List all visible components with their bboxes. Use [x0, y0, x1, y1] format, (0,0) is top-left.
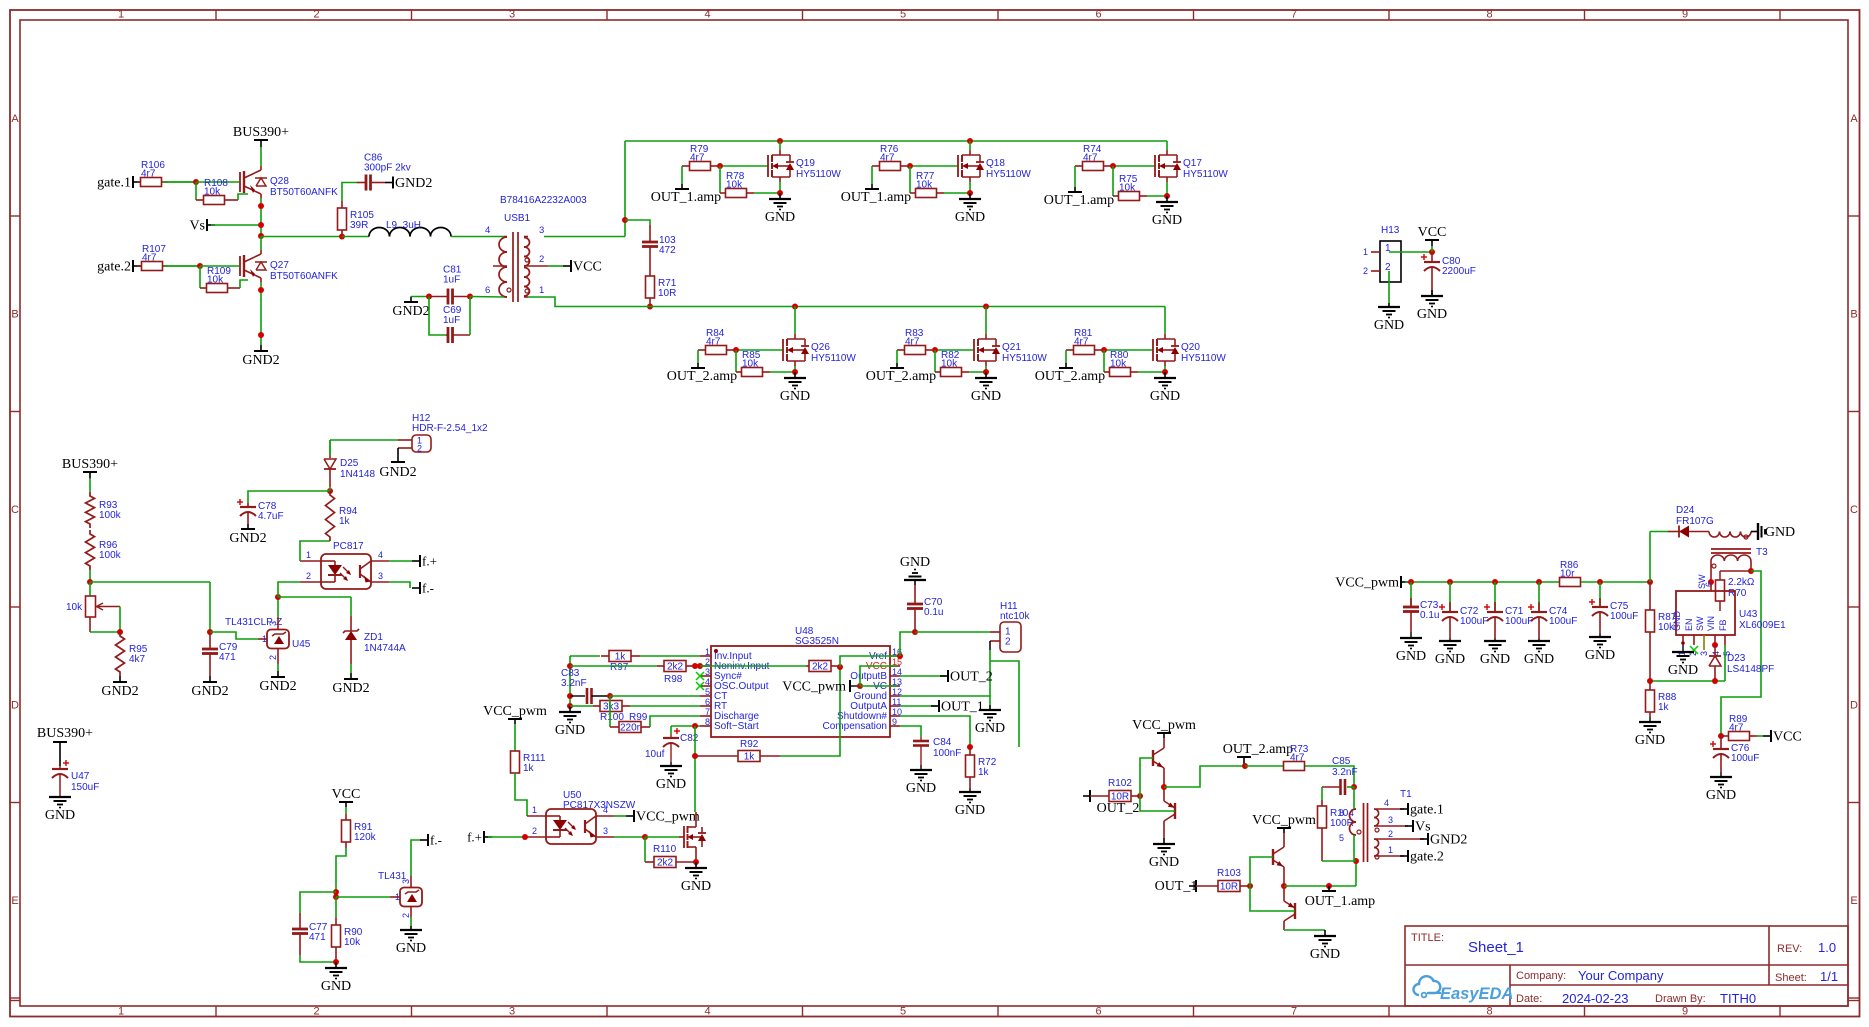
- wire base lower: [1140, 796, 1175, 811]
- resistor R74 4r7: [1075, 144, 1111, 171]
- svg-text:GND2: GND2: [379, 465, 416, 480]
- svg-text:4r7: 4r7: [1290, 753, 1305, 764]
- title block: [1405, 926, 1848, 1006]
- svg-text:GND: GND: [1149, 855, 1179, 870]
- transistor Q19 HY5110W (N-MOSFET): [768, 150, 841, 182]
- svg-text:D24: D24: [1676, 505, 1695, 516]
- svg-text:gate.1: gate.1: [97, 176, 131, 191]
- svg-text:BUS390+: BUS390+: [62, 457, 118, 472]
- ground GND below R88: [1635, 717, 1665, 748]
- resistor R110 2k2: [645, 844, 696, 869]
- junction: [258, 287, 264, 293]
- svg-text:FB: FB: [1718, 619, 1728, 631]
- svg-text:Q27: Q27: [270, 260, 289, 271]
- svg-text:ZD1: ZD1: [364, 632, 383, 643]
- svg-text:5: 5: [1339, 833, 1344, 843]
- svg-text:LS4148PF: LS4148PF: [1727, 664, 1774, 675]
- wire: [570, 705, 593, 707]
- junction gate node: [907, 163, 913, 169]
- net port OUT_2.amp: [667, 350, 737, 384]
- resistor R93 100k: [86, 492, 122, 528]
- svg-text:GND: GND: [971, 389, 1001, 404]
- svg-text:4r7: 4r7: [1074, 337, 1089, 348]
- wire VCC_pwm rail: [1405, 581, 1560, 583]
- svg-text:100uF: 100uF: [1549, 616, 1577, 627]
- svg-text:T3: T3: [1756, 547, 1768, 558]
- junction T1 pin5 node: [1353, 858, 1359, 864]
- resistor R92 1k: [695, 739, 780, 763]
- svg-text:GND2: GND2: [191, 684, 228, 699]
- wire: [700, 665, 806, 667]
- wire to C77: [300, 892, 336, 913]
- wire drain: [779, 141, 781, 150]
- ground GND driver2: [1310, 930, 1340, 962]
- resistor R81 4r7: [1066, 328, 1102, 355]
- wire gate to R85: [735, 350, 737, 372]
- svg-text:7: 7: [1291, 1006, 1297, 1018]
- wire: [89, 478, 91, 492]
- wire C79 node to TL431 U45: [210, 632, 258, 639]
- transistor Q17 HY5110W (N-MOSFET): [1155, 150, 1228, 182]
- wire VC and VCC: [860, 666, 897, 686]
- resistor R83 4r7: [897, 328, 933, 355]
- svg-text:Sheet_1: Sheet_1: [1468, 939, 1524, 956]
- svg-text:471: 471: [309, 932, 326, 943]
- net port VCC_pwm (rail): [1335, 576, 1409, 591]
- wire gate: [908, 165, 958, 167]
- svg-text:U45: U45: [292, 639, 311, 650]
- svg-text:GND: GND: [1706, 788, 1736, 803]
- svg-text:GND: GND: [1635, 733, 1665, 748]
- wire: [168, 181, 196, 183]
- power flag VCC_pwm (driver 1): [1132, 718, 1196, 738]
- EasyEDA logo: [1414, 976, 1514, 1003]
- svg-text:HY5110W: HY5110W: [1181, 353, 1226, 364]
- svg-text:1k: 1k: [339, 516, 351, 527]
- wire: [1581, 581, 1650, 583]
- ground GND (U48 Ground pin): [975, 705, 1005, 736]
- no-connect OSC.Output: [696, 682, 704, 690]
- wire vertical to top bus: [624, 141, 626, 237]
- wire node to C78: [248, 491, 330, 503]
- resistor R100 3k3: [593, 701, 630, 724]
- svg-text:2: 2: [1363, 266, 1368, 276]
- svg-text:PC817: PC817: [333, 541, 364, 552]
- svg-text:B78416A2232A003: B78416A2232A003: [500, 195, 587, 206]
- svg-text:8: 8: [1486, 9, 1492, 21]
- svg-text:OUT_2.amp: OUT_2.amp: [1223, 742, 1293, 757]
- svg-text:VCC: VCC: [573, 260, 602, 275]
- svg-text:OUT_2: OUT_2: [950, 670, 993, 685]
- net port VCC_pwm (U50 pin4): [614, 810, 700, 825]
- wire U50 pin3 to gate: [614, 836, 645, 838]
- wire gate: [734, 349, 783, 351]
- junction: [567, 663, 573, 669]
- wire Compensation to C84: [900, 726, 921, 737]
- svg-text:VCC: VCC: [1773, 730, 1802, 745]
- power flag OUT_2.amp: [1223, 742, 1293, 766]
- svg-text:R97: R97: [610, 662, 629, 673]
- resistor R77 10k: [910, 171, 944, 198]
- resistor R73 4r7: [1283, 744, 1309, 771]
- net port OUT_1.amp: [841, 166, 911, 205]
- junction OUT_1.amp node: [1326, 883, 1332, 889]
- wire H13 pin1 to VCC: [1389, 251, 1432, 253]
- svg-text:3: 3: [378, 571, 383, 581]
- svg-text:TITH0: TITH0: [1720, 991, 1756, 1006]
- svg-text:4r7: 4r7: [142, 253, 157, 264]
- resistor R71 10R: [646, 259, 677, 307]
- wire to source: [1147, 195, 1167, 197]
- svg-text:4.7uF: 4.7uF: [258, 511, 284, 522]
- capacitor C72 100uF: [1439, 582, 1488, 638]
- ground GND2 below R95: [101, 676, 138, 699]
- net port OUT_2.amp: [866, 350, 936, 384]
- svg-text:1: 1: [262, 634, 267, 644]
- svg-text:8: 8: [1339, 808, 1344, 818]
- wire discharge R99 branch: [609, 696, 611, 727]
- zener diode ZD1 1N4744A: [343, 616, 406, 664]
- junction: [837, 664, 843, 670]
- wire PNP1 emitter to GND: [1163, 825, 1165, 838]
- resistor R79 4r7: [682, 144, 718, 171]
- svg-text:GND: GND: [955, 210, 985, 225]
- svg-text:GND: GND: [1417, 307, 1447, 322]
- junction C72: [1447, 579, 1453, 585]
- ground GND at Q21: [971, 372, 1001, 404]
- svg-text:Q17: Q17: [1183, 158, 1202, 169]
- junction GND node: [333, 959, 339, 965]
- junction C77 tap: [333, 889, 339, 895]
- wire branch to R72 node: [990, 661, 1019, 747]
- junction R105 bottom node: [339, 234, 345, 240]
- wire: [350, 597, 352, 616]
- wire: [209, 582, 211, 632]
- junction gate node: [733, 347, 739, 353]
- svg-text:EasyEDA: EasyEDA: [1440, 985, 1513, 1003]
- transformer T1: [1339, 789, 1424, 862]
- svg-text:4: 4: [1384, 798, 1389, 808]
- svg-text:9: 9: [1682, 9, 1688, 21]
- wire Ground pin to GND: [900, 696, 990, 705]
- power flag OUT_1.amp (below wire): [1305, 886, 1375, 909]
- svg-text:OUT_1.amp: OUT_1.amp: [841, 190, 911, 205]
- wire: [137, 265, 141, 267]
- ground GND below H13: [1374, 303, 1404, 333]
- wire R105 to C86: [342, 183, 357, 202]
- junction base node 1: [1137, 793, 1143, 799]
- resistor R109 10k: [200, 266, 240, 293]
- wire up to T1 pin5 node: [1355, 861, 1357, 886]
- svg-text:Compensation: Compensation: [823, 721, 887, 732]
- wire CT: [610, 695, 700, 697]
- wire drain: [794, 307, 796, 335]
- svg-text:8: 8: [1486, 1006, 1492, 1018]
- ground GND2 below C79: [191, 676, 228, 699]
- net port Vs: [189, 219, 215, 234]
- ground GND below C72: [1435, 638, 1465, 667]
- wire: [238, 194, 248, 200]
- svg-text:10k: 10k: [742, 359, 759, 370]
- junction TL431 tap: [333, 894, 339, 900]
- svg-text:6: 6: [1095, 1006, 1101, 1018]
- svg-text:10k: 10k: [916, 180, 933, 191]
- junction: [1647, 678, 1653, 684]
- svg-text:3: 3: [509, 1006, 515, 1018]
- transistor Q26 HY5110W (N-MOSFET): [783, 334, 856, 366]
- svg-text:0.1u: 0.1u: [1420, 610, 1439, 621]
- capacitor C78 4.7uF: [237, 499, 284, 524]
- svg-text:HY5110W: HY5110W: [796, 169, 841, 180]
- junction source node: [777, 190, 783, 196]
- wire divider to C79 column: [90, 581, 210, 583]
- wire gate: [933, 349, 974, 351]
- net port OUT_2 input: [1083, 790, 1139, 816]
- svg-text:VCC_pwm: VCC_pwm: [1252, 813, 1316, 828]
- svg-text:1k: 1k: [978, 767, 990, 778]
- svg-text:OUT_1.amp: OUT_1.amp: [1044, 193, 1114, 208]
- svg-text:C: C: [1850, 504, 1858, 516]
- resistor R97 1k: [601, 651, 640, 674]
- svg-text:10R: 10R: [1220, 882, 1238, 893]
- resistor R108 10k: [196, 178, 238, 205]
- svg-text:GND: GND: [1374, 318, 1404, 333]
- resistor R85 10k: [736, 350, 770, 377]
- transistor NPN driver 1: [1153, 744, 1164, 772]
- capacitor C74 100uF: [1528, 582, 1577, 638]
- svg-text:C85: C85: [1332, 756, 1351, 767]
- net port VCC_pwm at VC pin: [782, 680, 858, 695]
- junction: [983, 304, 989, 310]
- svg-text:7: 7: [1291, 9, 1297, 21]
- svg-text:100uF: 100uF: [1505, 616, 1533, 627]
- svg-text:1N4744A: 1N4744A: [364, 643, 406, 654]
- wire gate to R77: [909, 166, 911, 193]
- ground GND2 below C78: [229, 524, 266, 546]
- junction source node: [967, 190, 973, 196]
- junction divider mid: [87, 579, 93, 585]
- svg-text:10R: 10R: [1111, 792, 1129, 803]
- wire FB row: [1650, 645, 1725, 681]
- wire R70 top link: [1720, 570, 1751, 572]
- svg-text:39R: 39R: [350, 220, 368, 231]
- svg-text:R103: R103: [1217, 868, 1241, 879]
- svg-text:E: E: [11, 895, 18, 907]
- svg-text:GND: GND: [396, 941, 426, 956]
- resistor R89 4r7: [1721, 714, 1757, 741]
- svg-text:Q18: Q18: [986, 158, 1005, 169]
- resistor R96 100k: [86, 530, 122, 570]
- svg-text:R99: R99: [629, 712, 648, 723]
- junction source node: [1162, 369, 1168, 375]
- junction C81 left: [426, 294, 432, 300]
- wire: [169, 265, 200, 267]
- ground GND at Q20: [1150, 372, 1180, 404]
- wire bus OUT row 1: [625, 140, 1167, 142]
- svg-text:2: 2: [313, 1006, 319, 1018]
- junction gate node: [717, 163, 723, 169]
- optocoupler PC817: [300, 541, 389, 589]
- svg-text:300pF 2kv: 300pF 2kv: [364, 163, 411, 174]
- svg-text:GND: GND: [955, 803, 985, 818]
- svg-text:220r: 220r: [620, 723, 641, 734]
- header H13: [1363, 225, 1401, 282]
- svg-text:TL431CLP-Z: TL431CLP-Z: [225, 617, 282, 628]
- junction SS node: [692, 723, 698, 729]
- wire R92 to Vref node: [780, 667, 840, 756]
- svg-text:D23: D23: [1727, 653, 1746, 664]
- wire D25 to H12 pin1: [330, 440, 398, 455]
- junction: [792, 304, 798, 310]
- svg-text:VCC: VCC: [1418, 225, 1447, 240]
- wire SS node down: [694, 726, 696, 812]
- ground GND2 below Q27: [242, 345, 279, 368]
- svg-text:120k: 120k: [354, 832, 377, 843]
- junction: [692, 663, 698, 669]
- net port OUT_1 input: [1155, 879, 1198, 894]
- wire pin1 to bus2: [528, 297, 650, 307]
- resistor R98 2k2: [657, 661, 694, 686]
- wire U45 pin3 up: [277, 597, 279, 630]
- wire Soft-Start: [671, 725, 700, 727]
- ground flag GND2 left of C81: [392, 297, 429, 320]
- wire base upper: [1140, 758, 1153, 796]
- wire to source: [770, 371, 795, 373]
- resistor R82 10k: [935, 350, 969, 377]
- svg-text:GND: GND: [1396, 649, 1426, 664]
- ground flag GND (T3 primary): [1751, 523, 1795, 540]
- wire PNP2 emitter to GND: [1284, 925, 1325, 930]
- svg-text:B: B: [11, 309, 18, 321]
- svg-text:HY5110W: HY5110W: [1183, 169, 1228, 180]
- ground GND below R90: [321, 962, 351, 994]
- junction snubber tap: [622, 217, 628, 223]
- svg-text:f.+: f.+: [422, 554, 437, 569]
- svg-text:100uF: 100uF: [1610, 611, 1638, 622]
- resistor R107 4r7: [137, 244, 169, 271]
- ground GND below C82: [656, 762, 686, 792]
- svg-text:XL6009E1: XL6009E1: [1739, 620, 1786, 631]
- svg-text:GND: GND: [1150, 389, 1180, 404]
- svg-text:3: 3: [603, 826, 608, 836]
- svg-text:FR107G: FR107G: [1676, 516, 1714, 527]
- svg-text:f.-: f.-: [422, 581, 434, 596]
- net port f.+ (U50 pin2): [467, 830, 527, 845]
- power flag BUS390+ (U47): [37, 726, 93, 742]
- svg-text:2: 2: [401, 913, 411, 918]
- net port gate.2: [97, 260, 141, 275]
- wire T1 pin8: [1353, 787, 1355, 809]
- svg-text:GND: GND: [1524, 652, 1554, 667]
- wire T3 secondary right to output node: [1750, 561, 1752, 571]
- wire collector Q28: [260, 147, 262, 166]
- svg-text:10k: 10k: [1119, 183, 1136, 194]
- wire source: [1166, 182, 1168, 196]
- junction Vs node: [258, 222, 264, 228]
- junction C76 node: [1718, 733, 1724, 739]
- svg-text:R110: R110: [653, 844, 677, 855]
- svg-text:SG3525N: SG3525N: [795, 636, 839, 647]
- svg-text:3k3: 3k3: [603, 702, 620, 713]
- junction: [1242, 763, 1248, 769]
- svg-text:100k: 100k: [99, 510, 122, 521]
- ground GND below C73: [1396, 632, 1426, 664]
- header H11 ntc10k: [990, 601, 1030, 652]
- svg-text:100uF: 100uF: [1731, 753, 1759, 764]
- power flag BUS390+ (divider): [62, 457, 118, 479]
- diode D24 FR107G: [1650, 505, 1714, 538]
- svg-text:GND: GND: [1765, 525, 1795, 540]
- svg-text:C82: C82: [680, 733, 699, 744]
- wire base upper 2: [1250, 857, 1273, 886]
- svg-text:A: A: [11, 113, 19, 125]
- junction R71 to bus2: [647, 304, 653, 310]
- svg-text:HY5110W: HY5110W: [986, 169, 1031, 180]
- svg-text:10k: 10k: [1658, 622, 1675, 633]
- wire source: [985, 366, 987, 372]
- wire gate to R75: [1112, 166, 1114, 196]
- svg-text:10k: 10k: [204, 187, 221, 198]
- svg-text:C: C: [11, 504, 19, 516]
- svg-text:GND: GND: [780, 389, 810, 404]
- svg-text:GND2: GND2: [259, 679, 296, 694]
- ground GND at Q17: [1152, 196, 1182, 228]
- capacitor C85 3.2nF: [1322, 756, 1358, 795]
- IC U48 SG3525N: [700, 626, 902, 737]
- wire wiper: [119, 607, 121, 633]
- net port f.- (to TL431 pin3): [411, 833, 442, 877]
- net port gate.1: [97, 176, 141, 191]
- wire R104 bottom: [1322, 860, 1356, 862]
- svg-text:4: 4: [485, 225, 490, 236]
- resistor 2k2 (Vref to Noninv): [806, 661, 840, 673]
- wire H13 pin2 to GND: [1388, 271, 1390, 303]
- wire TL431 pin3: [410, 876, 412, 888]
- ground GND below R72: [955, 788, 985, 818]
- wire to source: [944, 192, 970, 194]
- junction C85 node: [1351, 784, 1357, 790]
- junction C75: [1597, 579, 1603, 585]
- svg-text:Soft−Start: Soft−Start: [714, 721, 759, 732]
- inductor L9 3uH: [342, 220, 504, 237]
- wire gate: [645, 836, 684, 838]
- svg-text:HY5110W: HY5110W: [811, 353, 856, 364]
- resistor R76 4r7: [872, 144, 908, 171]
- wire: [411, 296, 429, 298]
- wire C77 bottom loop: [300, 955, 336, 962]
- resistor R75 10k: [1113, 174, 1147, 201]
- transformer USB1 B78416A2232A003: [485, 195, 587, 302]
- svg-text:Q28: Q28: [270, 176, 289, 187]
- svg-text:Q20: Q20: [1181, 342, 1200, 353]
- svg-text:gate.1: gate.1: [1410, 803, 1444, 818]
- wire R94 to PC817 pin1: [300, 541, 330, 561]
- svg-text:Vs: Vs: [1415, 820, 1431, 835]
- wire opto node up to PC817 pin2: [278, 582, 300, 597]
- resistor R106 4r7: [137, 160, 168, 187]
- svg-text:H13: H13: [1381, 225, 1400, 236]
- transistor PNP driver 1: [1164, 797, 1175, 825]
- svg-text:R70: R70: [1728, 588, 1747, 599]
- svg-text:100k: 100k: [99, 550, 122, 561]
- svg-text:6: 6: [1095, 9, 1101, 21]
- svg-text:Q19: Q19: [796, 158, 815, 169]
- svg-text:USB1: USB1: [504, 213, 531, 224]
- junction pot wiper node: [117, 629, 123, 635]
- wire drain: [985, 307, 987, 335]
- wire source: [794, 366, 796, 372]
- transistor Q27 BT50T60ANFK (IGBT): [240, 250, 338, 282]
